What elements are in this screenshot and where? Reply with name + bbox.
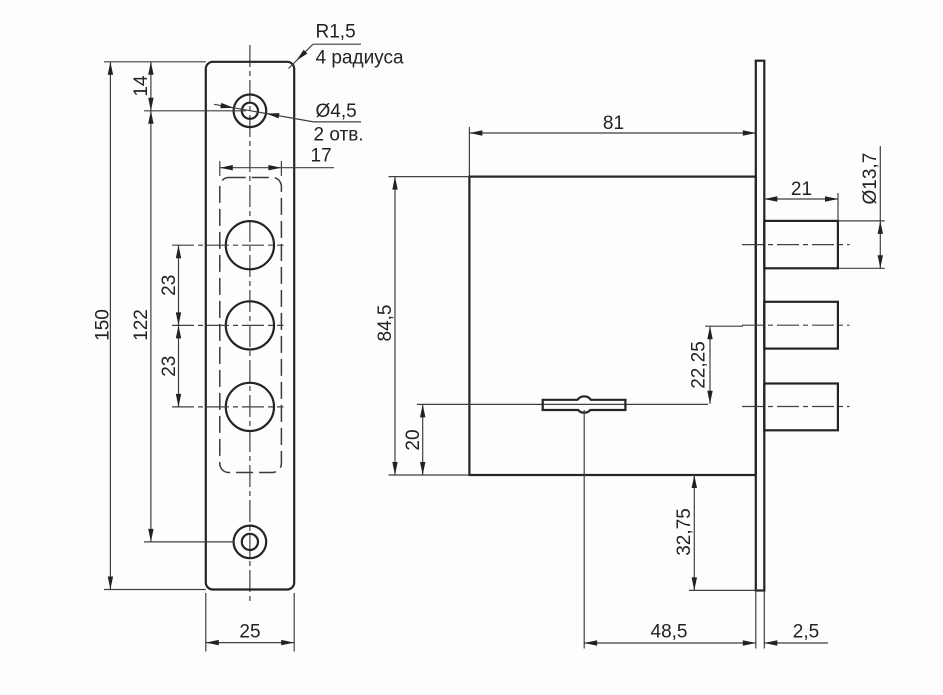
- dim 22,25 extension top: [705, 325, 743, 327]
- svg-text:23: 23: [159, 356, 180, 377]
- dim 150 extension top: [104, 61, 206, 63]
- dim 2,5 line: [764, 642, 828, 644]
- bolt hole circle 2: [226, 301, 274, 349]
- circle 3 horizontal centerline: [172, 406, 284, 408]
- dim 150 extension bottom: [104, 589, 206, 591]
- svg-text:14: 14: [131, 75, 152, 97]
- bolt 2 centerline: [742, 324, 850, 326]
- svg-text:122: 122: [131, 309, 152, 341]
- dim 150 line: [109, 62, 111, 590]
- bolt hole circle 3: [226, 383, 274, 431]
- dim 25 extension right: [293, 593, 295, 652]
- dim 22,25 line: [709, 326, 711, 404]
- screw hole top inner: [242, 103, 258, 119]
- lock body outline: [469, 177, 755, 475]
- svg-text:150: 150: [93, 309, 114, 341]
- dim 81 extension left: [468, 127, 470, 177]
- dim 21 line: [764, 198, 838, 200]
- svg-text:4 радиуса: 4 радиуса: [316, 48, 404, 69]
- svg-text:2,5: 2,5: [793, 622, 819, 643]
- svg-text:32,75: 32,75: [674, 508, 695, 556]
- svg-text:22,25: 22,25: [689, 341, 710, 389]
- circle 1 horizontal centerline: [172, 244, 284, 246]
- dim 17 extension right: [280, 161, 282, 176]
- dim 14 line: [150, 62, 152, 111]
- dim 84,5 extension top: [389, 176, 470, 178]
- dim 48,5 line: [584, 642, 756, 644]
- keyhole vertical extension: [583, 410, 585, 649]
- dim 23 line: [178, 245, 180, 407]
- label R1,5 leader: [289, 44, 314, 68]
- svg-text:R1,5: R1,5: [316, 22, 356, 43]
- svg-text:48,5: 48,5: [651, 622, 688, 643]
- faceplate edge strip: [756, 61, 765, 591]
- bolt 3 centerline: [742, 406, 850, 408]
- dim 48,5 extension right strip left: [755, 591, 757, 649]
- dim 84,5 line: [394, 177, 396, 475]
- bolt 1 outline: [764, 221, 838, 268]
- dim 84,5 extension bottom: [389, 474, 470, 476]
- dim 122 line: [150, 111, 152, 542]
- dim 25 extension left: [205, 593, 207, 652]
- label D4,5 underline: [314, 121, 362, 123]
- circle 2 horizontal centerline: [172, 324, 284, 326]
- dim 13,7 extension bottom: [839, 267, 885, 269]
- dim 32,75 extension bottom: [689, 589, 756, 591]
- dim 21 extension right: [837, 193, 839, 221]
- svg-text:Ø4,5: Ø4,5: [316, 101, 357, 122]
- screw hole top outer: [234, 95, 267, 128]
- dim 13,7 line: [879, 146, 881, 268]
- svg-text:21: 21: [791, 179, 812, 200]
- svg-text:81: 81: [603, 113, 624, 134]
- faceplate vertical centerline: [249, 45, 251, 601]
- bolt 3 outline: [764, 384, 838, 431]
- bolt 1 centerline: [742, 244, 850, 246]
- svg-text:17: 17: [311, 146, 332, 167]
- dim 122 extension at bottom hole: [144, 541, 235, 543]
- svg-text:20: 20: [403, 429, 424, 450]
- dim 14/122 extension at top hole: [144, 110, 246, 112]
- dim 13,7 extension top: [839, 220, 885, 222]
- screw hole bottom outer: [234, 526, 267, 559]
- cutout hidden rect: [220, 178, 282, 473]
- dim 17 line: [220, 167, 334, 169]
- dim 2,5 extension strip right: [763, 591, 765, 649]
- dim 20 line: [422, 404, 424, 475]
- label R1,5 underline: [313, 43, 361, 45]
- svg-text:23: 23: [159, 275, 180, 296]
- svg-text:25: 25: [239, 622, 260, 643]
- keyhole horizontal centerline: [417, 403, 708, 405]
- bolt hole circle 1: [226, 221, 274, 269]
- dim 25 line: [206, 642, 294, 644]
- label D4,5 leader: [214, 104, 314, 122]
- svg-text:Ø13,7: Ø13,7: [860, 153, 881, 205]
- keyhole slot outline: [543, 396, 626, 412]
- dim 17 extension left: [219, 161, 221, 176]
- dim 32,75 line: [693, 475, 695, 590]
- dim 81 line: [469, 132, 755, 134]
- screw hole bottom inner: [242, 534, 258, 550]
- faceplate outline: [206, 62, 294, 590]
- bolt 2 outline: [764, 302, 838, 349]
- svg-text:2 отв.: 2 отв.: [314, 125, 364, 146]
- svg-text:84,5: 84,5: [375, 305, 396, 342]
